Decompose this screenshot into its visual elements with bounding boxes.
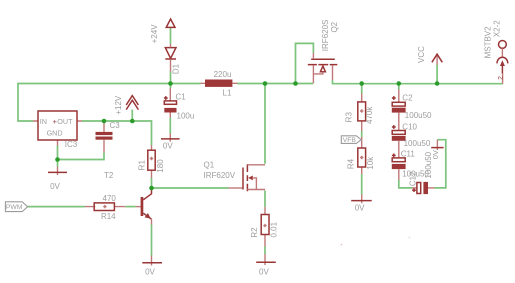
wire rail junction to C1 (170, 84, 172, 89)
wire D1 cathode to rail (170, 72, 172, 84)
svg-text:100u50: 100u50 (405, 111, 432, 120)
svg-text:0.01: 0.01 (269, 221, 278, 237)
svg-text:X2-2: X2-2 (492, 20, 501, 37)
svg-text:R1: R1 (138, 160, 147, 171)
svg-text:220u: 220u (214, 70, 232, 79)
resistor R4 (347, 148, 376, 174)
capacitor C1 (164, 88, 194, 121)
svg-text:IRF620S: IRF620S (321, 20, 330, 52)
wire Q1 source to R2 (264, 191, 266, 208)
junction at VCC on rail (435, 81, 440, 86)
mosfet Q2 (308, 20, 339, 84)
wire R14 to T2 base (125, 206, 135, 208)
junction at T2 collector node (149, 186, 154, 191)
wire VCC stem (436, 65, 438, 84)
ground 0V under IC3 (48, 167, 67, 191)
junction at +12V tap (130, 119, 135, 124)
junction at IC3 GND node (55, 157, 60, 162)
capacitor C2 (392, 90, 432, 131)
svg-text:10k: 10k (366, 156, 375, 170)
resistor R2 (250, 207, 278, 247)
svg-text:0V: 0V (355, 203, 365, 212)
svg-text:Q2: Q2 (330, 21, 339, 32)
supply +12V (114, 95, 138, 115)
svg-text:MSTBV2: MSTBV2 (484, 26, 493, 59)
svg-text:IRF620V: IRF620V (204, 171, 236, 180)
mosfet Q1 (204, 161, 266, 192)
capacitor C12 (408, 151, 434, 194)
voltage regulator IC3 (33, 111, 82, 149)
svg-text:C10: C10 (402, 123, 417, 132)
svg-text:0V: 0V (431, 150, 440, 159)
wire T2 emitter to ground (151, 225, 153, 256)
capacitor C11 (392, 150, 430, 180)
svg-text:R4: R4 (347, 158, 356, 169)
capacitor C3 (96, 121, 121, 153)
supply VCC (417, 46, 442, 65)
wire Q2 gate loop (296, 43, 314, 83)
junction at Q1 drain riser on rail (263, 81, 268, 86)
wire IC3 GND to junction, across to C3 bottom (58, 146, 105, 160)
svg-text:IC3: IC3 (65, 140, 78, 149)
svg-text:C2: C2 (402, 93, 413, 102)
svg-text:R3: R3 (344, 112, 353, 123)
wire +12V stem (131, 110, 133, 121)
resistor R1 (138, 145, 166, 178)
wire R1 bottom to collector node (151, 178, 153, 188)
svg-text:D1: D1 (172, 63, 181, 74)
inductor L1 (201, 70, 238, 97)
svg-text:GND: GND (47, 128, 63, 137)
wire R4 to ground (361, 174, 363, 195)
svg-text:VCC: VCC (417, 46, 426, 63)
transistor T2 (104, 171, 152, 225)
wire Q1 drain riser (264, 84, 266, 164)
junction at C3 tap (102, 119, 107, 124)
capacitor C10 (392, 123, 431, 158)
svg-text:100u50: 100u50 (404, 139, 431, 148)
origin mark near C12 (409, 237, 411, 239)
svg-text:470k: 470k (365, 106, 374, 124)
diode D1 (165, 44, 180, 74)
svg-text:470: 470 (103, 194, 117, 203)
svg-text:IN: IN (40, 117, 47, 126)
svg-text:L1: L1 (223, 88, 232, 97)
input flag PWM (5, 202, 27, 212)
svg-text:0V: 0V (163, 142, 173, 151)
wire R3 to R4 node (361, 131, 363, 137)
svg-text:0V: 0V (259, 268, 269, 277)
svg-text:PWM: PWM (6, 204, 23, 211)
ground 0V under R2 (256, 254, 276, 277)
svg-text:+24V: +24V (150, 24, 159, 44)
svg-text:+: + (53, 117, 57, 126)
wire C11 bottom to C12 (399, 180, 412, 188)
wire rail from L1 to Q2 left stub (237, 83, 313, 85)
wire rail to R3 (361, 84, 363, 94)
svg-text:+12V: +12V (114, 95, 123, 115)
wire main rail left from IC3 input riser to L1 (18, 84, 201, 122)
wire IC3 GND junction to ground (57, 160, 59, 167)
svg-text:R14: R14 (101, 212, 116, 221)
junction at C2 on rail (397, 81, 402, 86)
wire rail to C2 (398, 84, 400, 90)
svg-text:VFB: VFB (343, 137, 357, 144)
connector X2-2 (484, 20, 508, 84)
origin mark near T2 (341, 244, 343, 246)
wire C1 to ground (169, 118, 171, 134)
resistor R3 (344, 94, 374, 132)
svg-text:0V: 0V (145, 267, 155, 276)
junction at Q2 gate loop on rail (293, 81, 298, 86)
svg-text:Q1: Q1 (204, 161, 215, 170)
svg-text:R2: R2 (250, 227, 259, 238)
svg-text:2: 2 (497, 76, 504, 80)
resistor R14 (85, 194, 125, 221)
svg-text:OUT: OUT (57, 117, 73, 126)
svg-text:0V: 0V (50, 182, 60, 191)
wire IC3 OUT run with +12V and C3 taps, down to R1 (82, 121, 152, 145)
svg-text:180: 180 (156, 159, 165, 173)
supply +24V (150, 19, 175, 43)
ground 0V under R4 (351, 195, 372, 213)
junction at D1/C1 on rail (168, 81, 173, 86)
svg-text:C11: C11 (401, 150, 416, 159)
wire +24V stem to D1 (170, 28, 172, 44)
svg-text:T2: T2 (104, 171, 114, 180)
ground 0V rotated at C12 loop (431, 140, 444, 160)
wire R2 to ground (264, 247, 266, 255)
junction at R3 on rail (359, 81, 364, 86)
wire C12 to rotated ground loop (435, 140, 446, 188)
ground 0V under C1 (161, 134, 180, 151)
wire rail from Q2 right stub to X2-2 (333, 80, 503, 84)
wire PWM to R14 (28, 206, 85, 208)
wire T2 collector node to Q1 gate (152, 187, 229, 189)
ground 0V under T2 emitter (142, 256, 162, 277)
svg-text:C1: C1 (176, 93, 187, 102)
net flag VFB (341, 136, 361, 148)
svg-text:C3: C3 (110, 121, 121, 130)
svg-text:C12: C12 (408, 171, 417, 186)
svg-text:100u: 100u (177, 112, 195, 121)
